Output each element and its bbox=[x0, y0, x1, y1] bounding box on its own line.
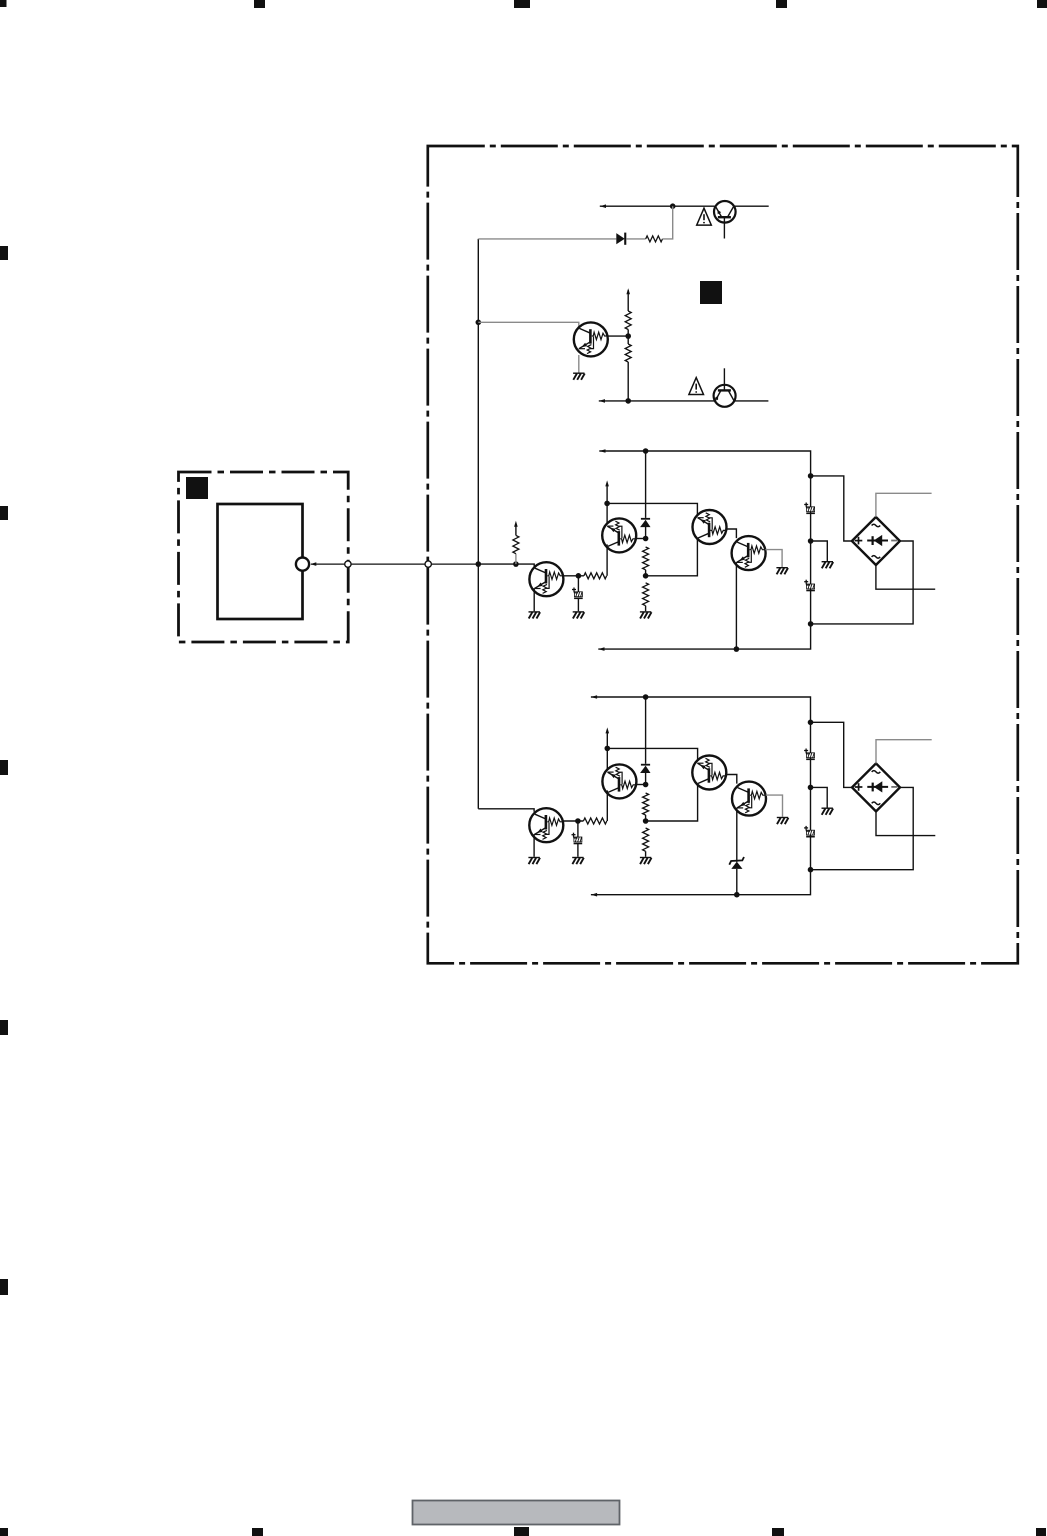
wire bridge ac top gray upper bbox=[876, 493, 932, 517]
resistor fs input upper bbox=[513, 535, 519, 553]
arrowhead stub up lower bbox=[606, 727, 610, 733]
arrowhead fs input upper bbox=[514, 521, 518, 527]
registration mark bottom x=772 bbox=[772, 1528, 784, 1536]
wire node to Q1 upper bbox=[636, 538, 646, 540]
wire r1-n2 lower bbox=[645, 815, 647, 821]
IC block label square bbox=[186, 477, 208, 499]
wire centre diode to node upper bbox=[645, 527, 647, 539]
node divider bottom bbox=[625, 398, 631, 404]
registration mark left y=1279 bbox=[0, 1279, 8, 1295]
node rail 1 upper bbox=[808, 473, 814, 479]
transistor Q2 bbox=[574, 322, 608, 356]
top rail wire upper bbox=[598, 451, 810, 649]
capacitor fs lower bbox=[572, 833, 583, 845]
main circuit block dash-dot border bbox=[428, 146, 1018, 963]
node centre lower upper bbox=[643, 573, 649, 579]
wire fsnode cap lower bbox=[577, 821, 579, 837]
node top rail centre lower bbox=[643, 694, 649, 700]
IC block dash-dot border bbox=[179, 472, 349, 642]
wire bridge ac bottom upper bbox=[876, 565, 935, 589]
main vertical bus wire bbox=[477, 239, 479, 809]
resistor centre lower lower bbox=[643, 828, 649, 851]
wire node to Q1 lower bbox=[636, 784, 646, 786]
registration mark top x=776 bbox=[776, 0, 787, 8]
top output wire right segment bbox=[735, 205, 769, 207]
warning triangle mid bbox=[689, 378, 704, 395]
wire Q1 emitter feed upper bbox=[606, 503, 608, 526]
registration mark top x=254 bbox=[254, 0, 265, 8]
warning triangle top bbox=[697, 208, 712, 225]
ground Q4 lower bbox=[777, 817, 789, 824]
registration mark left y=1020 bbox=[0, 1020, 8, 1035]
wire Q4 out gray lower bbox=[766, 795, 783, 817]
capacitor rail lower lower bbox=[804, 826, 815, 838]
resistor centre lower upper bbox=[643, 583, 649, 606]
wire stub up lower bbox=[606, 732, 608, 748]
capacitor fs upper bbox=[572, 588, 583, 600]
node Q2 divider bbox=[625, 333, 631, 339]
IC inner rectangle bbox=[218, 504, 303, 619]
ground centre upper bbox=[640, 611, 652, 618]
wire divider top bbox=[627, 290, 629, 311]
IC output terminal circle bbox=[296, 558, 309, 571]
wire fs out upper bbox=[564, 575, 584, 577]
wire cap gnd upper bbox=[577, 599, 579, 611]
node rail 2 upper bbox=[808, 538, 814, 544]
wire gray feed to diode bbox=[478, 238, 616, 240]
transistor first stage lower bbox=[529, 808, 563, 842]
wire gray bus to Q2 bbox=[478, 322, 579, 328]
resistor top feed bbox=[646, 236, 663, 242]
transistor first stage upper bbox=[529, 562, 563, 596]
registration mark top-right bbox=[1037, 0, 1047, 8]
node centre upper upper bbox=[643, 536, 649, 542]
arrowhead bottom rail upper bbox=[598, 647, 604, 651]
arrowhead bottom rail lower bbox=[591, 893, 597, 897]
wire Q1 collector out lower bbox=[606, 790, 608, 821]
node main bus / IC output bbox=[476, 561, 482, 567]
wire stub up upper bbox=[606, 485, 608, 503]
wire Q2 emitter to ground bbox=[578, 355, 580, 373]
ground rail upper bbox=[822, 561, 834, 568]
arrowhead into IC terminal bbox=[310, 562, 316, 566]
wire rail to bridge upper bbox=[811, 476, 852, 541]
wire Q3 out upper bbox=[726, 529, 736, 538]
registration mark top x=514 bbox=[514, 0, 530, 8]
resistor centre upper lower bbox=[643, 793, 649, 815]
wire rail to bridge lower bbox=[811, 722, 853, 787]
capacitor rail upper lower bbox=[804, 749, 815, 761]
node centre upper lower bbox=[643, 782, 649, 788]
wire bridge minus return lower bbox=[811, 787, 914, 869]
node top rail centre upper bbox=[643, 448, 649, 454]
wire r2-gnd upper bbox=[645, 606, 647, 612]
wire Q1 emitter feed lower bbox=[606, 748, 608, 772]
node rail 2 lower bbox=[808, 785, 814, 791]
node collector feed lower bbox=[605, 746, 611, 752]
ground fs cap lower bbox=[572, 857, 584, 864]
wire fs out lower bbox=[563, 820, 583, 822]
wire Q1 collector out upper bbox=[606, 544, 608, 575]
capacitor rail upper upper bbox=[804, 503, 815, 515]
wire input first stage upper bbox=[478, 564, 534, 567]
arrowhead top output bbox=[600, 204, 606, 208]
wire IC output to main block bbox=[311, 563, 478, 565]
registration mark top-left bbox=[0, 0, 7, 7]
node Q4 bottom lower bbox=[734, 892, 740, 898]
wire rail gnd branch upper bbox=[811, 541, 828, 561]
ground centre lower bbox=[640, 857, 652, 864]
wire fs emitter upper bbox=[533, 588, 535, 611]
wire rail gnd branch lower bbox=[811, 787, 828, 807]
arrowhead top rail lower bbox=[591, 695, 597, 699]
node rail 3 lower bbox=[808, 867, 814, 873]
node fs input upper bbox=[513, 561, 519, 567]
wire bridge minus return upper bbox=[811, 541, 914, 624]
registration mark left y=246 bbox=[0, 246, 8, 260]
node centre lower lower bbox=[643, 818, 649, 824]
wire diode to resistor bbox=[626, 238, 645, 240]
wire Q4 emitter upper bbox=[735, 562, 737, 649]
arrowhead mid output bbox=[599, 399, 605, 403]
wire Q4 emitter upper lower bbox=[736, 808, 738, 862]
top rail wire lower bbox=[591, 697, 811, 895]
capacitor rail lower upper bbox=[804, 580, 815, 592]
transistor Q4 upper bbox=[732, 536, 766, 570]
ground fs upper bbox=[529, 611, 541, 618]
registration mark left y=506 bbox=[0, 506, 8, 520]
resistor divider upper bbox=[625, 311, 631, 330]
wire zener to rail lower bbox=[736, 869, 738, 895]
wire bridge ac top gray lower bbox=[876, 740, 932, 764]
node bus to Q2 bbox=[476, 320, 482, 326]
ground rail lower bbox=[822, 808, 834, 815]
wire Q4 out gray upper bbox=[765, 550, 782, 567]
transistor Q3 lower bbox=[692, 756, 726, 790]
wire resistor to junction bbox=[663, 206, 673, 239]
wire Q2 base resistor out bbox=[608, 335, 628, 337]
wire centre diode to node lower bbox=[645, 773, 647, 785]
bridge rectifier upper bbox=[852, 517, 900, 565]
wire bridge ac bottom lower bbox=[876, 811, 935, 835]
registration mark bottom x=514 bbox=[514, 1527, 529, 1536]
arrowhead stub up upper bbox=[605, 480, 609, 486]
wire fs input arrow upper bbox=[515, 526, 517, 535]
node fs out lower bbox=[575, 818, 581, 824]
node fs out upper bbox=[576, 573, 582, 579]
arrowhead divider top bbox=[626, 288, 630, 294]
resistor divider lower bbox=[625, 344, 631, 362]
wire input first stage lower bbox=[478, 809, 534, 812]
arrowhead top rail upper bbox=[599, 449, 605, 453]
wire cap gnd lower bbox=[577, 844, 579, 857]
ground Q4 upper bbox=[776, 567, 788, 574]
mid output wire bbox=[599, 400, 715, 402]
node collector feed upper bbox=[604, 501, 610, 507]
transistor Q1 lower bbox=[602, 764, 636, 798]
resistor centre upper upper bbox=[643, 547, 649, 570]
wire fs input stub upper bbox=[515, 554, 517, 564]
diode D1 bbox=[616, 233, 626, 245]
wire divider middle a bbox=[627, 330, 629, 345]
top output wire bbox=[600, 205, 715, 207]
wire Q3 out lower bbox=[726, 775, 737, 784]
registration mark left y=760 bbox=[0, 760, 8, 775]
node top output junction bbox=[670, 203, 676, 209]
ground fs cap upper bbox=[573, 611, 585, 618]
transistor Q4 lower bbox=[732, 782, 766, 816]
node Q4 bottom upper bbox=[734, 646, 740, 652]
registration mark bottom-left bbox=[0, 1528, 8, 1536]
wire centre chain top upper bbox=[645, 451, 647, 518]
connector circle on main block edge bbox=[425, 561, 431, 567]
mid output wire right segment bbox=[735, 400, 769, 402]
registration mark bottom x=252 bbox=[252, 1528, 263, 1536]
wire divider bottom bbox=[627, 362, 629, 401]
resistor first-stage out lower bbox=[583, 818, 606, 824]
ground Q2 bbox=[573, 373, 585, 380]
diode centre upper bbox=[640, 518, 650, 527]
ground fs lower bbox=[528, 857, 540, 864]
transistor Q3 upper bbox=[693, 510, 727, 544]
main block label square bbox=[700, 281, 722, 304]
wire r2-gnd lower bbox=[645, 851, 647, 857]
bridge rectifier lower bbox=[852, 763, 900, 811]
diode centre lower bbox=[640, 764, 650, 773]
node rail 1 lower bbox=[808, 720, 814, 726]
node rail 3 upper bbox=[808, 621, 814, 627]
transistor Q top bbox=[714, 201, 736, 239]
connector circle on IC box edge bbox=[345, 561, 351, 567]
wire fs emitter lower bbox=[533, 834, 535, 857]
transistor Q1 upper bbox=[602, 518, 636, 552]
wire r1-n2 upper bbox=[645, 570, 647, 576]
registration mark bottom-right bbox=[1036, 1528, 1046, 1536]
zener lower bbox=[729, 857, 744, 869]
transistor Q mid bbox=[714, 368, 736, 407]
wire centre chain top lower bbox=[645, 697, 647, 764]
resistor first-stage out upper bbox=[584, 573, 607, 579]
wire n2 loop upper bbox=[607, 503, 697, 575]
footer gray bar bbox=[413, 1501, 620, 1525]
wire n2 loop lower bbox=[607, 748, 697, 821]
wire fsnode cap upper bbox=[577, 576, 579, 592]
